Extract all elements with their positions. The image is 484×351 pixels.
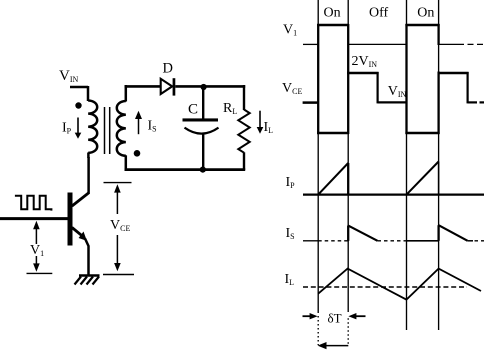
svg-text:IP: IP — [62, 121, 72, 136]
svg-text:RL: RL — [223, 101, 237, 116]
svg-text:V1: V1 — [283, 23, 297, 38]
svg-text:VIN: VIN — [59, 68, 79, 84]
svg-text:IL: IL — [285, 272, 295, 287]
svg-text:δT: δT — [328, 310, 342, 325]
svg-text:On: On — [324, 6, 341, 21]
svg-text:IS: IS — [286, 226, 295, 241]
svg-text:IL: IL — [264, 120, 274, 135]
svg-text:IP: IP — [286, 175, 296, 190]
svg-text:VIN: VIN — [388, 84, 407, 99]
svg-text:IS: IS — [148, 119, 157, 134]
svg-text:Off: Off — [369, 6, 389, 21]
svg-text:2VIN: 2VIN — [352, 54, 378, 69]
svg-text:On: On — [417, 6, 434, 21]
svg-text:VCE: VCE — [110, 218, 130, 233]
svg-text:VCE: VCE — [282, 81, 302, 96]
svg-text:V1: V1 — [30, 243, 44, 258]
svg-text:D: D — [163, 61, 173, 77]
svg-text:C: C — [188, 102, 198, 118]
